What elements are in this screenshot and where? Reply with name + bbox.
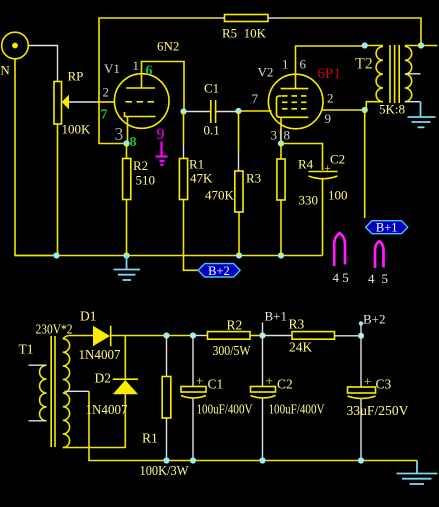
wire stub right of secondary top xyxy=(421,45,438,47)
V2 grid dashes row g2 xyxy=(282,95,308,97)
svg-text:T2: T2 xyxy=(355,56,373,73)
junction C1 right xyxy=(235,108,241,114)
junction B+1 node xyxy=(259,332,265,338)
resistor R1 psu xyxy=(166,336,168,377)
junction C1 left xyxy=(180,108,186,114)
svg-text:100: 100 xyxy=(328,188,348,203)
resistor R2 psu xyxy=(208,332,251,340)
transformer T1 core xyxy=(51,336,55,447)
wire R3 to B+2 node xyxy=(335,335,362,337)
svg-text:100uF/400V: 100uF/400V xyxy=(197,402,253,417)
junction T2 secondary top / feedback xyxy=(418,42,424,48)
T2 secondary bottom wire xyxy=(405,101,421,103)
V2 cathode pin wire xyxy=(280,117,282,143)
wire cathode node to C2 xyxy=(281,144,323,171)
junction R4-gnd xyxy=(278,252,284,258)
wire screen node to B+1 xyxy=(364,110,366,218)
junction screen/B+1 xyxy=(362,107,368,113)
svg-text:R3: R3 xyxy=(246,171,261,186)
input jack J xyxy=(2,32,29,59)
V2 grid dashes row g1 xyxy=(282,101,308,103)
V2 grid dashes row g3 xyxy=(282,108,308,110)
junction C1 top xyxy=(190,332,196,338)
junction R2-gnd xyxy=(123,252,129,258)
T1 secondary top lead wire xyxy=(63,336,93,339)
T1 center tap wire xyxy=(65,390,90,392)
svg-text:B+2: B+2 xyxy=(363,312,386,327)
junction C1 bottom xyxy=(190,457,196,463)
svg-text:3: 3 xyxy=(271,128,278,143)
svg-text:IN: IN xyxy=(0,63,10,78)
T2 secondary tap wire xyxy=(407,73,421,75)
B+1 stub xyxy=(262,323,264,336)
resistor R2 xyxy=(126,144,128,159)
resistor R5 xyxy=(225,15,269,22)
diode D2 xyxy=(113,380,138,394)
transformer T2 primary winding xyxy=(365,46,383,111)
svg-text:4 5: 4 5 xyxy=(333,270,349,285)
tube V2 envelope xyxy=(268,74,323,129)
junction B+2 node xyxy=(358,333,364,339)
svg-text:R3: R3 xyxy=(289,317,305,332)
resistor R3 xyxy=(238,111,240,151)
SECTION TOP : amplifier xyxy=(0,15,438,287)
resistor R4 xyxy=(280,144,282,160)
capacitor C3 psu xyxy=(360,336,362,387)
svg-text:9: 9 xyxy=(325,111,332,126)
transformer T1 secondary winding xyxy=(63,339,70,448)
ground symbol speaker xyxy=(408,102,436,128)
wire RP wiper to V1 grid xyxy=(69,101,99,103)
svg-text:8: 8 xyxy=(284,128,291,143)
svg-text:V2: V2 xyxy=(258,65,274,80)
svg-text:D1: D1 xyxy=(80,309,97,324)
svg-text:33uF/250V: 33uF/250V xyxy=(347,403,409,418)
junction RP-gnd xyxy=(53,252,59,258)
svg-text:3: 3 xyxy=(115,124,124,144)
svg-text:7: 7 xyxy=(101,108,108,123)
junction R3-gnd xyxy=(236,252,242,258)
ground symbol xyxy=(114,256,141,281)
RP wiper arrow xyxy=(62,95,69,110)
B+2 stub xyxy=(360,324,362,336)
capacitor C1 xyxy=(210,100,212,123)
svg-text:7: 7 xyxy=(252,91,259,106)
junction V2 cathode xyxy=(278,140,284,146)
transformer T2 secondary winding xyxy=(405,46,421,102)
wire jack ground side xyxy=(15,59,57,256)
junction T2 primary top xyxy=(362,42,368,48)
hexagon node B+1 xyxy=(366,221,408,235)
svg-text:R2: R2 xyxy=(133,158,148,173)
V2 screen pin wire xyxy=(322,109,365,111)
svg-text:1: 1 xyxy=(282,57,289,72)
svg-text:B+1: B+1 xyxy=(265,309,288,324)
svg-text:C2: C2 xyxy=(277,377,293,392)
wire V1 plate node to C1 xyxy=(184,111,211,113)
heater pigtail left xyxy=(334,233,345,266)
svg-text:47K: 47K xyxy=(190,171,213,186)
svg-text:9: 9 xyxy=(157,126,165,143)
V1 cathode xyxy=(125,112,156,117)
wire jack to RP top xyxy=(29,46,58,82)
svg-text:T1: T1 xyxy=(19,342,34,357)
V2 beam plate / cathode wrap xyxy=(277,96,309,117)
svg-text:R4: R4 xyxy=(298,157,314,172)
svg-text:2: 2 xyxy=(327,91,334,106)
svg-text:+: + xyxy=(196,373,203,388)
svg-text:4 5: 4 5 xyxy=(368,271,388,286)
svg-text:V1: V1 xyxy=(104,61,120,76)
svg-text:510: 510 xyxy=(136,173,156,188)
capacitor C1 psu xyxy=(192,336,194,387)
svg-text:230V*2: 230V*2 xyxy=(36,322,73,337)
svg-text:100uF/400V: 100uF/400V xyxy=(269,402,325,417)
magenta heater ground marker xyxy=(156,142,168,165)
capacitor C2 psu xyxy=(262,336,264,387)
svg-text:R5 10K: R5 10K xyxy=(222,26,267,41)
svg-text:R1: R1 xyxy=(142,431,158,446)
svg-text:6: 6 xyxy=(146,64,153,79)
SECTION BOTTOM : power supply xyxy=(19,309,438,485)
svg-text:1: 1 xyxy=(133,58,140,73)
junction C3 bottom xyxy=(358,457,364,463)
svg-text:0.1: 0.1 xyxy=(204,123,220,138)
svg-text:R1: R1 xyxy=(189,157,204,172)
svg-text:B+1: B+1 xyxy=(376,221,398,235)
svg-text:100K: 100K xyxy=(62,122,92,137)
hexagon node B+2 xyxy=(198,264,240,278)
junction C2 bottom xyxy=(259,457,265,463)
svg-text:C2: C2 xyxy=(330,152,345,167)
wire R5 to T2 secondary top xyxy=(268,17,281,19)
B+ rail wire xyxy=(111,335,194,337)
wire feedback: V1 cathode to top line xyxy=(99,18,215,144)
T1 secondary bottom lead wire xyxy=(63,394,126,447)
capacitor C2 xyxy=(309,171,338,173)
T1 primary bottom lead xyxy=(29,420,47,422)
svg-text:100K/3W: 100K/3W xyxy=(140,463,189,478)
potentiometer RP xyxy=(54,82,62,125)
svg-text:470K: 470K xyxy=(205,188,235,203)
svg-text:6: 6 xyxy=(300,57,307,72)
wire C1 to V2 grid node xyxy=(216,111,238,113)
T1 center tap to bottom bus xyxy=(89,391,417,460)
svg-text:6P1: 6P1 xyxy=(318,66,341,82)
resistor R1 xyxy=(183,112,185,145)
transformer T1 primary winding xyxy=(40,365,47,421)
svg-text:24K: 24K xyxy=(289,340,313,355)
T1 primary top lead xyxy=(29,364,47,366)
svg-text:B+2: B+2 xyxy=(208,264,230,278)
pin 3-8 tie bar xyxy=(280,129,282,141)
V2 plate and pin wire xyxy=(281,88,309,90)
svg-text:C1: C1 xyxy=(204,81,219,96)
svg-text:+: + xyxy=(364,374,371,389)
ground symbol psu xyxy=(397,461,438,485)
V1 grid dashes xyxy=(126,101,155,103)
svg-text:D2: D2 xyxy=(95,371,112,386)
svg-text:RP: RP xyxy=(68,69,84,84)
wire R2 to B+1 node xyxy=(250,335,263,337)
wire RP bottom to ground bus xyxy=(57,124,59,256)
svg-text:8: 8 xyxy=(130,135,137,150)
svg-text:330: 330 xyxy=(299,193,319,208)
heater pigtail right xyxy=(375,241,384,268)
svg-text:5K:8: 5K:8 xyxy=(379,102,405,117)
D2 cathode wire to rail xyxy=(124,336,126,380)
T2 core xyxy=(390,45,399,103)
diode D1 xyxy=(93,326,110,347)
tube V1 envelope xyxy=(114,74,169,129)
svg-text:+: + xyxy=(266,373,273,388)
ground bus wire xyxy=(15,255,323,257)
svg-text:C3: C3 xyxy=(376,377,392,392)
junction V1 cathode xyxy=(123,140,129,146)
svg-text:1N4007: 1N4007 xyxy=(86,402,128,417)
junction R1 top xyxy=(163,332,169,338)
svg-text:300/5W: 300/5W xyxy=(213,343,251,358)
junction R1 bottom xyxy=(163,457,169,463)
V1 cathode pin wire xyxy=(127,117,129,144)
svg-text:R2: R2 xyxy=(227,318,243,333)
resistor R3 psu xyxy=(292,332,335,340)
svg-text:6N2: 6N2 xyxy=(157,39,179,54)
svg-text:C1: C1 xyxy=(208,377,224,392)
V1 plate and pin wire xyxy=(126,87,155,89)
wire B+1 node to R3 xyxy=(263,335,293,337)
svg-text:1N4007: 1N4007 xyxy=(79,347,121,362)
svg-text:2: 2 xyxy=(103,85,110,100)
